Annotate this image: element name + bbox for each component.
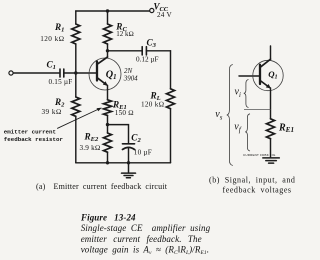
svg-text:(b) Signal, input, and: (b) Signal, input, and <box>209 176 295 185</box>
wire top rail <box>76 10 150 12</box>
transistor Q1b base bar <box>259 65 261 84</box>
svg-text:0.15 µF: 0.15 µF <box>49 78 73 86</box>
svg-text:39 kΩ: 39 kΩ <box>42 108 62 116</box>
svg-text:feedback voltages: feedback voltages <box>223 186 292 195</box>
label RC <box>115 22 134 38</box>
svg-text:RE2: RE2 <box>84 131 100 143</box>
label annotation emitter current feedback resistor <box>4 129 64 143</box>
label RL <box>141 90 165 108</box>
resistor R1 <box>72 24 80 44</box>
svg-text:voltage gain is Av ≈ (RC‖RL)/R: voltage gain is Av ≈ (RC‖RL)/RE1. <box>81 245 209 256</box>
svg-text:0.12 µF: 0.12 µF <box>136 55 159 63</box>
svg-text:(a) Emitter current feedback: (a) Emitter current feedback circuit <box>36 182 168 191</box>
wire base (b) <box>239 75 259 77</box>
svg-text:12 kΩ: 12 kΩ <box>116 30 134 38</box>
caption (b) <box>209 176 295 195</box>
wire RE1 bottom <box>107 115 109 124</box>
node emitter ref line <box>244 108 271 110</box>
ground (a) <box>122 163 136 178</box>
ground (b) <box>263 158 280 163</box>
wire C1 to base <box>64 72 96 74</box>
label VCC <box>154 1 173 19</box>
wire R1 top <box>75 11 77 24</box>
svg-text:vf: vf <box>234 122 241 134</box>
terminal input <box>9 71 13 75</box>
label Q1 <box>106 68 138 82</box>
wire R2 top <box>75 73 77 97</box>
svg-text:10 µF: 10 µF <box>134 148 152 156</box>
svg-text:C3: C3 <box>147 37 157 49</box>
transistor Q1 circle <box>89 58 121 90</box>
label C3 <box>136 37 159 63</box>
capacitor C1 <box>60 69 64 77</box>
svg-text:Q1: Q1 <box>106 69 117 81</box>
brace vi <box>244 80 249 108</box>
node RE1/RE2/C2 junction <box>106 123 109 126</box>
label RE2 <box>80 131 101 152</box>
annotation arrow <box>58 109 100 128</box>
wire collector (b) <box>270 46 272 59</box>
wire input to C1 <box>13 72 59 74</box>
brace vs <box>227 65 233 166</box>
wire R2 bottom <box>75 116 77 163</box>
svg-text:24 V: 24 V <box>157 11 172 19</box>
svg-text:Single-stage CE amplifier usi: Single-stage CE amplifier using <box>81 223 211 233</box>
svg-text:emitter current feedback. The: emitter current feedback. The <box>81 234 202 244</box>
svg-text:120 kΩ: 120 kΩ <box>40 35 64 43</box>
node ground tap <box>127 161 130 164</box>
transistor Q1b emitter <box>261 81 270 88</box>
capacitor C3 <box>108 50 142 52</box>
node collector junction <box>106 49 109 52</box>
wire collector up <box>107 51 109 58</box>
svg-text:feedback resistor: feedback resistor <box>4 136 64 143</box>
resistor RE1 (b) <box>267 119 275 139</box>
label R2 <box>42 97 66 116</box>
resistor RE2 <box>107 125 109 133</box>
transistor Q1b circle <box>253 60 283 90</box>
terminal VCC <box>150 8 154 12</box>
node top rail / RC junction <box>106 9 109 12</box>
svg-text:vs: vs <box>215 109 222 121</box>
node base junction <box>74 71 77 74</box>
PART B <box>239 46 283 163</box>
wire RL bottom <box>170 109 172 163</box>
transistor Q1b collector <box>261 59 271 67</box>
resistor RE1 <box>104 100 112 116</box>
svg-text:C1: C1 <box>47 60 56 72</box>
figure caption <box>80 213 211 256</box>
svg-text:RE1: RE1 <box>278 122 294 134</box>
label R1 <box>40 22 64 43</box>
wire R1 bottom <box>75 44 77 73</box>
svg-text:CURRENT FDBK FIG: CURRENT FDBK FIG <box>243 153 276 157</box>
resistor RC <box>107 11 109 24</box>
wire C2 bottom <box>128 148 130 163</box>
svg-text:2N: 2N <box>124 68 132 75</box>
resistor RL <box>167 89 175 109</box>
svg-text:3.9 kΩ: 3.9 kΩ <box>80 144 101 152</box>
svg-text:150 Ω: 150 Ω <box>115 109 134 117</box>
wire RL top <box>170 51 172 89</box>
wire emitter (b) <box>270 88 272 119</box>
transistor Q1 emitter <box>98 78 107 85</box>
wire emitter down <box>107 85 109 100</box>
resistor R2 <box>72 97 80 116</box>
capacitor C2 <box>123 144 135 150</box>
transistor Q1 collector <box>98 57 108 64</box>
label C2 <box>131 132 152 156</box>
label C1 <box>47 60 73 87</box>
node RE2 bottom <box>106 161 109 164</box>
wire bottom rail <box>76 162 171 164</box>
svg-text:vi: vi <box>235 87 241 99</box>
label RE1 <box>112 99 134 117</box>
svg-text:Figure 13-24: Figure 13-24 <box>80 213 136 223</box>
svg-text:120 kΩ: 120 kΩ <box>141 101 165 109</box>
wire RE1 to ground (b) <box>270 139 272 158</box>
svg-text:R1: R1 <box>54 22 64 34</box>
svg-text:C2: C2 <box>131 132 141 144</box>
svg-text:Q1: Q1 <box>268 69 277 81</box>
transistor Q1 base bar <box>96 62 98 81</box>
svg-text:3904: 3904 <box>123 76 138 83</box>
wire C2 tap <box>108 125 129 143</box>
svg-text:emitter current: emitter current <box>4 129 56 136</box>
brace vf <box>245 114 250 151</box>
